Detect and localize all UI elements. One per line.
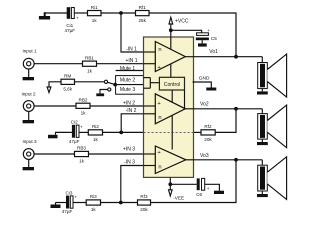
svg-text:1k: 1k <box>87 68 93 73</box>
svg-text:25k: 25k <box>138 18 146 23</box>
svg-text:Mute 3: Mute 3 <box>120 87 136 93</box>
wire (control to amps vertical) <box>171 90 173 150</box>
ground (Input 3) <box>28 159 30 167</box>
svg-text:Ri2: Ri2 <box>92 124 99 129</box>
op-amp IC block <box>144 37 194 177</box>
ground (Input 1) <box>28 69 30 77</box>
resistor RM 5,6k <box>61 79 75 84</box>
wire Vo1 <box>193 56 263 58</box>
node (-VEE) <box>168 182 172 186</box>
svg-text:n: n <box>158 115 161 121</box>
capacitor Ci2 47uF <box>72 125 75 138</box>
resistor Rf3 20k <box>138 200 151 205</box>
capacitor C6 <box>197 178 200 190</box>
svg-text:Vo3: Vo3 <box>200 153 209 159</box>
wire (top rail to feedback corner) <box>149 13 236 57</box>
svg-text:-IN 3: -IN 3 <box>124 160 135 166</box>
wire (-IN1 from node to IC) <box>121 13 144 52</box>
wire (+IN1 to IC) <box>97 63 144 65</box>
wire <box>34 63 82 65</box>
svg-text:RB2: RB2 <box>79 98 88 103</box>
svg-text:C5: C5 <box>211 36 217 41</box>
svg-text:+IN 2: +IN 2 <box>123 100 135 106</box>
svg-text:1k: 1k <box>79 159 85 164</box>
wire (-IN3 inside) <box>144 165 156 167</box>
node (VCC) <box>169 28 173 32</box>
wire (+IN1 inside) <box>144 63 156 65</box>
svg-text:Mute 1: Mute 1 <box>120 66 136 72</box>
wire (Rf2 to Vo2) <box>215 109 236 133</box>
wire <box>193 131 202 133</box>
switch S1 contact <box>104 80 107 83</box>
resistor RB2 1k <box>76 103 90 108</box>
wire (-IN2 pin) <box>121 114 143 133</box>
svg-text:RM: RM <box>64 74 71 79</box>
svg-text:-IN 2: -IN 2 <box>126 108 137 114</box>
power -VEE arrow <box>169 184 171 190</box>
svg-text:1k: 1k <box>91 207 97 212</box>
power +VCC arrow <box>169 17 173 24</box>
wire (-IN1 inside) <box>144 51 156 53</box>
switch S1 contact 2 <box>108 88 111 91</box>
svg-text:Ri1: Ri1 <box>91 5 98 10</box>
svg-text:n: n <box>158 165 161 171</box>
speaker LS1 <box>261 57 263 63</box>
control block <box>159 77 184 90</box>
wire (U1a out) <box>185 56 192 58</box>
wire + ground (C6) <box>205 184 220 190</box>
connector Input 1 <box>23 58 34 69</box>
svg-text:1k: 1k <box>92 18 98 23</box>
svg-text:Rf2: Rf2 <box>204 124 212 129</box>
wire (-VEE pin) <box>169 177 171 184</box>
svg-text:Input 1: Input 1 <box>22 49 36 54</box>
connector Input 2 <box>23 101 34 112</box>
svg-text:+IN 3: +IN 3 <box>123 147 135 153</box>
op-amp U1c <box>155 146 186 174</box>
svg-text:RB1: RB1 <box>85 55 94 60</box>
svg-text:RB3: RB3 <box>77 146 86 151</box>
svg-text:+: + <box>74 194 77 199</box>
svg-text:+: + <box>207 28 210 33</box>
wire <box>56 202 67 204</box>
node (junction Ri1/Rf1/-IN1) <box>119 11 123 15</box>
svg-text:C6: C6 <box>196 192 202 197</box>
resistor Rf1 25k <box>136 11 150 16</box>
wire Vo2 <box>193 108 263 110</box>
capacitor C5 <box>197 33 209 36</box>
ground (C5) <box>201 40 203 43</box>
wire <box>101 12 136 14</box>
wire <box>45 12 67 14</box>
wire Vo3 <box>193 159 263 161</box>
wire GND pin <box>193 82 212 88</box>
ground (Ci3) <box>55 203 57 205</box>
speaker LS3 <box>261 160 263 165</box>
svg-text:Vo2: Vo2 <box>200 102 209 108</box>
ground (switch) <box>96 93 104 96</box>
wire <box>73 202 86 204</box>
op-amp U1a <box>155 42 185 72</box>
wire (ch2 feedback dashed inside IC) <box>144 131 194 133</box>
svg-text:5,6k: 5,6k <box>63 87 72 92</box>
wire (RM to -VEE arrow) <box>49 82 61 87</box>
wire (control to U1b) <box>184 90 186 109</box>
op-amp U1b <box>155 94 185 124</box>
speaker LS2 <box>261 109 263 114</box>
svg-text:47µF: 47µF <box>62 209 73 214</box>
svg-text:Input 2: Input 2 <box>21 91 35 96</box>
switch S1 lever <box>108 82 115 84</box>
power -VEE arrow (at RM) <box>47 87 51 93</box>
svg-text:+VCC: +VCC <box>175 18 189 24</box>
capacitor Ci1 47uF <box>67 7 71 19</box>
svg-text:-VEE: -VEE <box>173 196 184 201</box>
wire (+IN2 inside) <box>144 105 156 107</box>
node (ch2 feedback) <box>119 131 123 135</box>
node (ch3 feedback) <box>119 201 123 205</box>
svg-text:-IN 1: -IN 1 <box>126 46 137 52</box>
svg-text:Input 3: Input 3 <box>22 139 36 144</box>
wire <box>101 202 138 204</box>
ground (GND pin) <box>206 88 216 91</box>
resistor RB3 1k <box>75 151 89 156</box>
svg-text:Rf1: Rf1 <box>139 5 147 10</box>
svg-text:+: + <box>80 124 83 129</box>
wire (VCC to C5) <box>171 30 202 33</box>
svg-text:Ri3: Ri3 <box>90 194 97 199</box>
resistor Ri1 1k <box>88 11 102 16</box>
svg-text:20k: 20k <box>140 207 148 212</box>
svg-text:+: + <box>76 16 79 21</box>
ground (Input 2) <box>28 111 30 120</box>
resistor Ri3 1k <box>86 200 100 205</box>
wire (-IN3 pin) <box>121 166 144 203</box>
wire (-VEE to C6) <box>170 183 196 185</box>
wire (+IN2 to IC) <box>90 105 144 107</box>
svg-text:Rf3: Rf3 <box>140 194 148 199</box>
node (Vo3 feedback) <box>234 158 238 162</box>
svg-text:n: n <box>158 47 161 53</box>
wire <box>34 105 76 107</box>
wire <box>103 131 144 133</box>
svg-text:20k: 20k <box>204 137 212 142</box>
connector Input 3 <box>23 149 34 160</box>
wire (switch to ground) <box>100 90 108 94</box>
ground (top-left, at Ci1) <box>44 12 46 16</box>
wire (Rf3 to Vo3) <box>151 160 237 203</box>
wire (dashed through IC) <box>144 131 193 133</box>
svg-text:Mute 2: Mute 2 <box>120 77 136 83</box>
wire <box>74 12 87 14</box>
svg-text:1k: 1k <box>81 111 87 116</box>
capacitor Ci3 47uF <box>66 196 69 209</box>
node (switch to mute bus) <box>113 83 117 87</box>
svg-text:Vo1: Vo1 <box>209 49 218 55</box>
wire <box>34 153 74 155</box>
svg-text:Ci2: Ci2 <box>71 119 78 124</box>
node (Vo2 feedback) <box>234 107 238 111</box>
resistor Rf2 20k <box>201 130 215 135</box>
ground (Ci2) <box>55 132 57 134</box>
wire (+IN3 inside) <box>144 153 156 155</box>
node (Vo1 feedback) <box>234 55 238 59</box>
wire (mute stubs) <box>144 77 151 79</box>
svg-text:Control: Control <box>164 82 180 88</box>
node mute tie box <box>116 76 144 95</box>
svg-text:47µF: 47µF <box>65 28 76 33</box>
svg-text:+IN 1: +IN 1 <box>125 58 137 64</box>
resistor RB1 1k <box>83 61 97 66</box>
svg-text:Ci3: Ci3 <box>66 190 73 195</box>
svg-text:47µF: 47µF <box>69 139 80 144</box>
wire (-IN2 inside) <box>144 113 156 115</box>
wire (U1c out) <box>186 159 193 161</box>
wire (U1b out) <box>185 108 192 110</box>
resistor Ri2 1k <box>88 130 102 135</box>
wire (+IN3 to IC) <box>89 153 144 155</box>
svg-text:+: + <box>207 186 210 191</box>
wire <box>55 131 72 133</box>
svg-text:GND: GND <box>199 76 210 82</box>
wire (VCC internal vertical) <box>170 37 172 77</box>
svg-text:1k: 1k <box>93 137 99 142</box>
wire <box>79 131 88 133</box>
wire (RM to switch) <box>75 81 105 83</box>
wire Mute 1 pin <box>116 70 144 72</box>
